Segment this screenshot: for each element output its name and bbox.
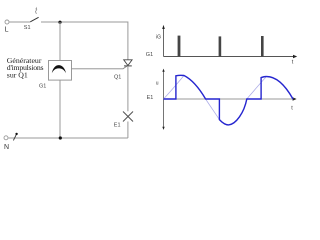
svg-text:E1: E1 [114, 123, 121, 129]
svg-text:Q1: Q1 [114, 74, 121, 80]
svg-text:iG: iG [156, 35, 161, 41]
svg-text:L: L [5, 27, 9, 34]
svg-text:sur Q1: sur Q1 [7, 71, 28, 80]
svg-text:S1: S1 [24, 25, 31, 31]
svg-text:N: N [4, 144, 9, 151]
svg-text:G1: G1 [39, 83, 46, 89]
svg-text:G1: G1 [146, 52, 153, 58]
svg-text:E1: E1 [147, 95, 154, 101]
svg-text:u: u [156, 80, 159, 86]
